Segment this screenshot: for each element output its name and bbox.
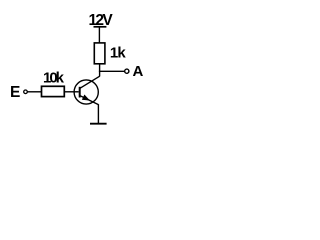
terminal A open circle [125,69,129,73]
terminal E open circle [24,90,28,94]
wire R1 bottom to collector elbow [99,64,101,77]
wire node to terminal A [99,70,125,72]
transistor Q1 emitter arrowhead [82,95,89,100]
resistor R2 10k body [42,86,65,96]
transistor Q1 body circle [74,80,98,104]
transistor Q1 base bar [79,87,81,98]
wire terminal E to R2 [27,91,41,93]
svg-text:A: A [133,63,144,80]
svg-text:10k: 10k [43,69,65,86]
resistor R1 1k body [94,43,105,64]
supply terminal bar 12V [94,26,107,28]
ground bar [90,123,107,125]
transistor Q1 emitter lead [80,96,99,105]
wire emitter to ground [97,104,99,124]
wire 12V bar to R1 top [98,27,100,43]
svg-text:1k: 1k [110,44,126,61]
transistor Q1 collector lead [80,76,100,88]
svg-text:E: E [10,84,20,101]
wire R2 to base of Q1 [64,91,78,93]
